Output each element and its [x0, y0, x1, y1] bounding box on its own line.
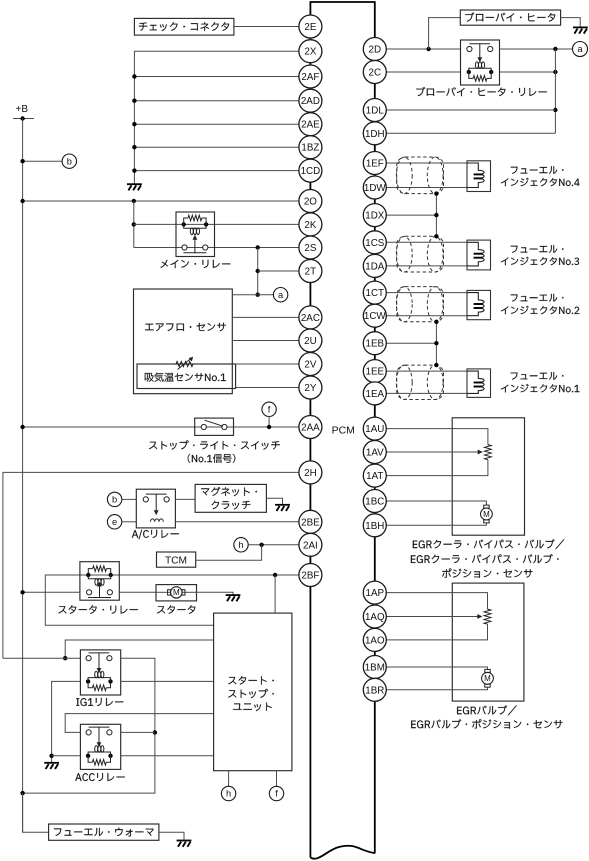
wire injector No.2 top — [386, 292, 467, 294]
bus break wave — [310, 846, 374, 859]
shielded cable (injector No.3) — [397, 236, 444, 272]
pin 2AC — [299, 306, 322, 329]
node e (A/C) — [107, 515, 121, 529]
svg-text:2U: 2U — [304, 336, 317, 347]
pin 2K — [299, 213, 322, 236]
pin 2U — [299, 329, 322, 352]
check connector box — [134, 18, 234, 35]
svg-text:2V: 2V — [304, 360, 316, 371]
svg-text:1AV: 1AV — [366, 448, 384, 459]
wire 2AF — [134, 76, 299, 78]
pin 1AQ — [363, 605, 386, 628]
wire magnet clutch to ground — [266, 498, 282, 504]
pin 1BZ — [299, 136, 322, 159]
svg-text:2AE: 2AE — [301, 120, 320, 131]
wire 1BM to motor — [386, 667, 487, 669]
svg-text:2X: 2X — [304, 47, 316, 58]
wire 1CD — [134, 170, 299, 172]
svg-text:1EA: 1EA — [366, 389, 385, 400]
wire 2C (through relay coil) — [386, 71, 460, 73]
svg-text:2S: 2S — [304, 243, 316, 254]
pin 1AP — [363, 581, 386, 604]
node b (top) — [23, 160, 63, 162]
wire 1AP to position sensor — [386, 593, 487, 610]
starter motor box: スタータ — [156, 585, 197, 601]
svg-text:1DH: 1DH — [365, 129, 385, 140]
blow-by heater relay box: ブローバイ・ヒータ・リレー — [461, 40, 500, 85]
wire +B to fuel warmer — [23, 793, 49, 832]
wire injector No.1 bottom — [386, 392, 467, 394]
wire 1AV wiper arrow — [386, 451, 478, 453]
wire 1BZ — [134, 146, 299, 148]
svg-text:1AU: 1AU — [365, 424, 384, 435]
pin 1AO — [363, 628, 386, 651]
node a (airflow) — [273, 288, 287, 302]
ground (blow-by heater) — [573, 27, 588, 33]
wire 1AT — [386, 460, 488, 476]
junction 2S/2T/(a) — [256, 245, 260, 249]
wire 2K (through main relay coil) — [134, 223, 299, 225]
blow-by heater box: ブローバイ・ヒータ — [460, 10, 560, 25]
svg-text:2BE: 2BE — [301, 517, 320, 528]
magnet clutch box: マグネット・クラッチ — [195, 484, 266, 512]
svg-text:2AI: 2AI — [303, 540, 318, 551]
svg-text:a: a — [577, 44, 583, 54]
wire 1BR — [386, 687, 487, 690]
pin 1AU — [363, 417, 386, 440]
fuel injector No.3: フューエル・インジェクタNo.3 — [467, 240, 491, 270]
unit pin f — [276, 771, 278, 787]
svg-text:M: M — [173, 588, 180, 597]
wire 2BF junction down to start/stop unit — [274, 575, 276, 613]
wire 2E to check connector — [234, 26, 299, 28]
pin 2E — [299, 15, 322, 38]
svg-text:1DA: 1DA — [365, 261, 385, 272]
TCM box — [157, 552, 196, 567]
wire unit to IG1 relay switch — [65, 640, 213, 658]
pin 1BR — [363, 678, 386, 701]
wire injector No.1 top — [386, 370, 467, 372]
wire +B to starter relay switch — [23, 591, 80, 593]
svg-text:TCM: TCM — [165, 555, 187, 566]
EGR cooler bypass valve motor M — [484, 520, 489, 523]
svg-text:a: a — [278, 290, 284, 300]
shield drain vertical No.4-No.3 — [435, 194, 437, 237]
pin 2Y — [299, 376, 322, 399]
pin 1AV — [363, 441, 386, 464]
wire 1AQ wiper arrow — [386, 616, 478, 618]
pin 2S — [299, 236, 322, 259]
pin 2AI — [299, 533, 322, 556]
wire ACC switch output — [121, 731, 155, 733]
svg-text:1BH: 1BH — [365, 521, 384, 532]
wire IG1 coil to unit — [121, 680, 214, 682]
unit pin h — [228, 771, 230, 787]
svg-text:1DW: 1DW — [364, 183, 387, 194]
pin 1CT — [363, 281, 386, 304]
pin 2BF — [299, 564, 322, 587]
svg-text:1BC: 1BC — [365, 497, 384, 508]
node f (stop light) — [262, 402, 276, 416]
shielded cable (injector No.4) — [397, 157, 444, 194]
main relay U: メイン・リレー — [176, 212, 215, 257]
svg-text:1CS: 1CS — [365, 238, 385, 249]
wire fuel warmer to ground — [159, 832, 184, 840]
ground (magnet clutch) — [275, 505, 290, 511]
svg-text:2AD: 2AD — [301, 96, 320, 107]
A/C relay box: A/Cリレー — [136, 489, 175, 528]
EGR cooler bypass valve box — [452, 418, 524, 535]
pin 2H — [299, 461, 322, 484]
svg-text:1DL: 1DL — [366, 106, 385, 117]
svg-text:1EE: 1EE — [366, 367, 385, 378]
pin 1DX — [363, 204, 386, 227]
+B vertical rail — [22, 119, 24, 833]
pin 1BH — [363, 514, 386, 537]
wire 2V — [236, 363, 299, 365]
wire 1DL — [386, 109, 555, 111]
svg-text:M: M — [484, 674, 491, 683]
svg-text:1BZ: 1BZ — [301, 143, 319, 154]
thermistor (intake temp) — [176, 361, 193, 366]
pin 1EA — [363, 382, 386, 405]
airflow meter box: エアフロ・センサ — [134, 289, 233, 394]
wire IG1 switch input — [3, 657, 81, 659]
ground (fuel warmer) — [177, 841, 192, 847]
svg-text:1CD: 1CD — [301, 166, 321, 177]
wire to main relay — [133, 201, 135, 248]
svg-text:+B: +B — [16, 104, 29, 115]
svg-text:1CT: 1CT — [366, 288, 385, 299]
svg-text:1DX: 1DX — [365, 211, 385, 222]
pin 1EE — [363, 360, 386, 383]
wire 2T — [258, 270, 299, 272]
intake air temp sensor box: 吸気温センサNo.1 — [137, 364, 236, 389]
wire IG1 switch to ACC switch junction — [23, 658, 155, 793]
wire injector No.4 top — [386, 162, 467, 164]
wire 2AA — [23, 426, 299, 428]
svg-text:1CW: 1CW — [364, 311, 387, 322]
pin 2X — [299, 40, 322, 63]
svg-text:b: b — [112, 495, 117, 505]
pin 2AE — [299, 113, 322, 136]
pin 1DH — [363, 122, 386, 145]
svg-text:2O: 2O — [304, 197, 317, 208]
svg-text:1BM: 1BM — [365, 663, 385, 674]
pin 1DW — [363, 176, 386, 199]
potentiometer (EGR valve) — [484, 609, 491, 624]
wire 1BC to motor — [386, 501, 486, 505]
wire blow-by heater to ground — [561, 18, 581, 27]
wire 1DX (shield drain) — [386, 214, 436, 216]
EGR valve motor M — [485, 684, 490, 687]
svg-text:2Y: 2Y — [304, 383, 316, 394]
ACC relay box: ACCリレー — [80, 724, 120, 769]
svg-text:h: h — [238, 540, 243, 550]
node b (A/C) — [107, 492, 121, 506]
wire 2Y — [236, 387, 299, 389]
wire 2O — [23, 200, 299, 202]
ground (check connector chain) — [127, 184, 142, 190]
pin 2V — [299, 353, 322, 376]
svg-text:2K: 2K — [304, 220, 316, 231]
pin 1EB — [363, 332, 386, 355]
ground (starter) — [226, 595, 241, 601]
fuel injector No.1: フューエル・インジェクタNo.1 — [467, 369, 491, 398]
pin 2C — [363, 61, 386, 84]
wire 1BH — [386, 523, 486, 525]
fuel injector No.4: フューエル・インジェクタNo.4 — [467, 161, 491, 192]
pin 2T — [299, 260, 322, 283]
wire unit to ACC relay switch — [65, 714, 213, 733]
stop light switch: ストップ・ライト・スイッチ — [195, 418, 234, 435]
pin 1CS — [363, 231, 386, 254]
svg-text:1AP: 1AP — [366, 588, 385, 599]
wire 2U — [232, 340, 299, 342]
pin 2BE — [299, 510, 322, 533]
wire relay switch to node a — [500, 48, 573, 50]
svg-text:f: f — [275, 789, 278, 799]
wire 2H — [3, 472, 299, 658]
wire to node a — [232, 294, 273, 296]
wire 2AE — [134, 123, 299, 125]
shielded cable (injector No.1) — [397, 365, 444, 399]
wire ACC coil to unit — [121, 755, 214, 757]
wire starter relay to starter — [119, 591, 156, 593]
wire starter to ground — [197, 592, 234, 594]
wire 2BE — [175, 521, 299, 523]
svg-text:2AC: 2AC — [301, 313, 320, 324]
svg-text:e: e — [112, 517, 117, 527]
pin 1BC — [363, 490, 386, 513]
ground (IG1/ACC coils) — [44, 763, 59, 769]
pin 1CW — [363, 304, 386, 327]
svg-text:2H: 2H — [304, 468, 317, 479]
svg-text:1AQ: 1AQ — [365, 612, 385, 623]
start stop unit box: スタート・ストップ・ユニット — [214, 613, 292, 771]
wire injector No.2 bottom — [386, 315, 467, 317]
svg-text:h: h — [226, 789, 231, 799]
svg-text:2AF: 2AF — [301, 72, 319, 83]
IG1 relay box: IG1リレー — [80, 650, 120, 695]
wire 2AC — [232, 316, 299, 318]
EGR valve box — [452, 583, 524, 701]
svg-text:1EF: 1EF — [366, 159, 384, 170]
svg-text:b: b — [67, 156, 72, 166]
pin 2O — [299, 190, 322, 213]
wire 2BF (through starter relay coil) — [45, 575, 299, 625]
svg-text:2E: 2E — [304, 22, 316, 33]
svg-text:PCM: PCM — [332, 425, 355, 437]
fuel injector No.2: フューエル・インジェクタNo.2 — [467, 290, 491, 319]
wire injector No.3 top — [386, 241, 467, 243]
wire 2D (to blow-by heater + relay switch) — [386, 48, 460, 50]
pin 1CD — [299, 159, 322, 182]
wire 2S (through main relay switch) — [134, 247, 299, 249]
svg-text:f: f — [268, 405, 271, 415]
wire 2X + daisy chain vertical — [134, 51, 299, 183]
shielded cable (injector No.2) — [397, 287, 444, 322]
wire 2AD — [134, 100, 299, 102]
svg-text:2C: 2C — [369, 68, 382, 79]
node a (top right) — [573, 42, 588, 57]
pin 1AT — [363, 464, 386, 487]
pin 1DL — [363, 99, 386, 122]
PCM connector bus — [310, 2, 374, 858]
potentiometer (EGR cooler bypass) — [485, 445, 492, 460]
wire TCM to 2AI junction — [196, 545, 262, 560]
svg-text:1AO: 1AO — [365, 635, 385, 646]
pin 2D — [363, 38, 386, 61]
wire 1AO — [386, 624, 487, 640]
wire IG1 coil left to ground rail — [52, 681, 81, 762]
wire 2AI — [248, 544, 299, 546]
wire A/C switch to magnet clutch — [175, 498, 195, 500]
svg-text:2BF: 2BF — [301, 571, 319, 582]
pin 1DA — [363, 254, 386, 277]
fuel warmer box: フューエル・ウォーマ — [49, 824, 159, 840]
svg-text:2D: 2D — [369, 45, 382, 56]
wire 1EB (shield drain) — [386, 342, 436, 344]
wire injector No.3 bottom — [386, 265, 467, 267]
svg-text:M: M — [483, 510, 490, 519]
svg-text:1EB: 1EB — [366, 339, 385, 350]
pin 2AD — [299, 89, 322, 112]
pin 1EF — [363, 152, 386, 175]
pin 2AF — [299, 65, 322, 88]
wire ACC coil left — [52, 755, 81, 757]
junction rail to 1DL/1DH — [554, 49, 556, 133]
wire 1AU to position sensor — [386, 429, 488, 445]
svg-text:1BR: 1BR — [365, 685, 384, 696]
shield drain vertical No.2-No.1 — [435, 322, 437, 365]
svg-text:2T: 2T — [305, 267, 316, 278]
pin 1BM — [363, 656, 386, 679]
starter relay box: スタータ・リレー — [80, 562, 119, 601]
svg-text:2AA: 2AA — [301, 423, 320, 434]
wire 1DH — [386, 132, 555, 134]
svg-text:1AT: 1AT — [366, 471, 383, 482]
wire injector No.4 bottom — [386, 187, 467, 189]
pin 2AA — [299, 416, 322, 439]
node h (TCM) — [234, 538, 248, 552]
